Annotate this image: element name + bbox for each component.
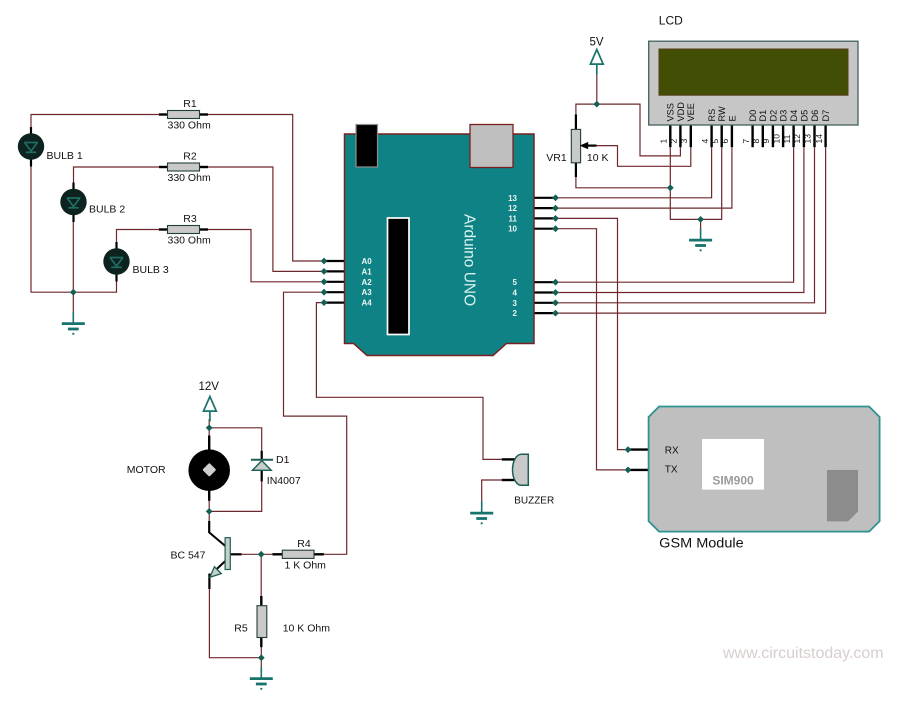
ground under LCD bbox=[689, 229, 712, 252]
wire R2 to A1 bbox=[208, 167, 324, 271]
svg-text:2: 2 bbox=[513, 309, 518, 318]
svg-text:10 K Ohm: 10 K Ohm bbox=[283, 622, 331, 634]
wire pin11 to GSM RX bbox=[556, 218, 628, 449]
svg-text:D4: D4 bbox=[789, 110, 799, 122]
node pin 4 bbox=[552, 289, 559, 296]
svg-text:D2: D2 bbox=[768, 110, 778, 122]
svg-text:330 Ohm: 330 Ohm bbox=[168, 172, 211, 184]
wire 12V to node bbox=[208, 419, 210, 428]
wire gnd node to ground bbox=[72, 292, 74, 313]
svg-text:4: 4 bbox=[700, 139, 710, 144]
svg-text:GSM Module: GSM Module bbox=[659, 536, 744, 552]
resistor R2 bbox=[159, 151, 211, 185]
wire Q1 emitter to gnd node bbox=[209, 588, 261, 658]
svg-text:330 Ohm: 330 Ohm bbox=[168, 120, 211, 132]
wire base node to R5 bbox=[260, 554, 262, 597]
node pin 3 bbox=[552, 299, 559, 306]
svg-text:R4: R4 bbox=[297, 538, 311, 550]
svg-text:A3: A3 bbox=[362, 288, 373, 297]
wire D1 to node bbox=[209, 480, 262, 511]
node emitter-R5 junction bbox=[258, 654, 265, 661]
wire node to Q1 collector bbox=[208, 511, 210, 523]
svg-text:12: 12 bbox=[792, 134, 802, 144]
wire A3 to R4 bbox=[284, 292, 347, 554]
svg-text:RW: RW bbox=[717, 106, 727, 121]
svg-text:www.circuitstoday.com: www.circuitstoday.com bbox=[722, 645, 884, 662]
svg-text:R3: R3 bbox=[183, 213, 197, 225]
svg-text:8: 8 bbox=[751, 139, 761, 144]
svg-text:D3: D3 bbox=[779, 110, 789, 122]
node pin A0 bbox=[321, 258, 328, 265]
svg-text:10: 10 bbox=[508, 225, 517, 234]
svg-text:BULB 2: BULB 2 bbox=[89, 204, 125, 216]
node VSS junction bbox=[667, 184, 674, 191]
resistor R1 bbox=[159, 98, 211, 132]
node bulbs gnd junction bbox=[70, 289, 77, 296]
node pin A3 bbox=[321, 289, 328, 296]
svg-text:BC 547: BC 547 bbox=[170, 550, 205, 562]
svg-text:330 Ohm: 330 Ohm bbox=[168, 235, 211, 247]
diode D1 IN4007 bbox=[251, 451, 301, 487]
wire pin10 to GSM TX bbox=[556, 229, 628, 470]
node 12V junction bbox=[206, 424, 213, 431]
power +5V bbox=[590, 50, 603, 75]
ground under bulbs bbox=[62, 312, 85, 335]
wire bulb2 to gnd node bbox=[72, 218, 74, 292]
wire buzzer to ground bbox=[482, 480, 502, 504]
wire A4 to buzzer bbox=[316, 303, 501, 460]
svg-text:14: 14 bbox=[814, 134, 824, 144]
svg-text:VR1: VR1 bbox=[546, 152, 567, 164]
svg-text:VDD: VDD bbox=[676, 102, 686, 122]
svg-text:11: 11 bbox=[782, 134, 792, 143]
svg-text:BUZZER: BUZZER bbox=[514, 496, 554, 507]
svg-text:D6: D6 bbox=[810, 110, 820, 122]
svg-text:E: E bbox=[727, 115, 737, 121]
wire Q1 base to R4 bbox=[241, 553, 273, 555]
node pin A2 bbox=[321, 278, 328, 285]
wire pin2 to LCD D7 bbox=[556, 147, 826, 313]
svg-text:RX: RX bbox=[665, 446, 679, 457]
wire motor to node bbox=[208, 500, 210, 512]
wire LCD RS to pin13 bbox=[556, 147, 712, 198]
svg-text:1: 1 bbox=[659, 139, 669, 144]
node pin 12 bbox=[552, 205, 559, 212]
svg-text:13: 13 bbox=[803, 134, 813, 144]
transistor Q1 BC547 bbox=[170, 521, 241, 589]
wire LCD VSS and RW to ground net bbox=[670, 147, 721, 219]
svg-text:TX: TX bbox=[665, 464, 678, 475]
LCD module LM016L bbox=[649, 14, 858, 148]
svg-text:A2: A2 bbox=[362, 278, 373, 287]
wire node to motor bbox=[208, 428, 210, 437]
svg-text:RS: RS bbox=[707, 109, 717, 122]
svg-text:BULB 1: BULB 1 bbox=[47, 150, 83, 162]
svg-text:R5: R5 bbox=[234, 622, 248, 634]
ground under buzzer bbox=[470, 502, 493, 525]
svg-text:2: 2 bbox=[669, 139, 679, 144]
wire gnd node to ground bbox=[700, 219, 702, 230]
svg-text:D1: D1 bbox=[758, 110, 768, 122]
node pin 13 bbox=[552, 194, 559, 201]
svg-text:D5: D5 bbox=[799, 110, 809, 122]
node pin 2 bbox=[552, 310, 559, 317]
svg-text:SIM900: SIM900 bbox=[712, 474, 754, 488]
wire bulb1 to R1 bbox=[31, 115, 159, 132]
node 5V junction bbox=[593, 101, 600, 108]
wire LCD E to pin12 bbox=[556, 147, 732, 208]
wire pin5 to LCD D4 bbox=[556, 147, 794, 282]
svg-text:13: 13 bbox=[508, 194, 517, 203]
svg-text:4: 4 bbox=[513, 289, 518, 298]
node pin 5 bbox=[552, 279, 559, 286]
wire bulb3 to gnd node bbox=[73, 277, 116, 292]
svg-text:7: 7 bbox=[741, 139, 751, 144]
svg-text:R1: R1 bbox=[183, 98, 197, 110]
svg-text:3: 3 bbox=[679, 139, 689, 144]
wire R5 to gnd node bbox=[260, 646, 262, 658]
wire VR1 bottom to VSS net bbox=[576, 177, 670, 188]
motor M1 bbox=[127, 436, 230, 501]
svg-text:IN4007: IN4007 bbox=[267, 475, 301, 487]
svg-text:D0: D0 bbox=[748, 110, 758, 122]
svg-text:5: 5 bbox=[513, 278, 518, 287]
wire node to VR1 top bbox=[576, 104, 597, 114]
lamp BULB 2 bbox=[60, 183, 125, 223]
svg-text:BULB 3: BULB 3 bbox=[133, 264, 169, 276]
svg-text:LCD: LCD bbox=[659, 14, 683, 28]
wire R3 to A2 bbox=[208, 230, 324, 282]
svg-text:D1: D1 bbox=[276, 454, 290, 466]
power +12V bbox=[204, 397, 217, 422]
node pin A1 bbox=[321, 268, 328, 275]
svg-text:5: 5 bbox=[710, 139, 720, 144]
wire bulb2 to R2 bbox=[74, 167, 160, 185]
svg-text:3: 3 bbox=[513, 299, 518, 308]
node pin 11 bbox=[552, 215, 559, 222]
svg-text:VSS: VSS bbox=[666, 103, 676, 121]
node pin A4 bbox=[321, 299, 328, 306]
svg-text:VEE: VEE bbox=[686, 103, 696, 121]
svg-text:10 K: 10 K bbox=[587, 152, 609, 164]
node pin 10 bbox=[552, 225, 559, 232]
wire R1 to A0 bbox=[208, 115, 324, 262]
svg-text:MOTOR: MOTOR bbox=[127, 464, 166, 476]
Arduino UNO board U1 bbox=[325, 125, 554, 356]
svg-text:10: 10 bbox=[771, 134, 781, 144]
GSM module SIM900 bbox=[630, 407, 880, 552]
wire bulb1 to gnd node bbox=[31, 163, 73, 292]
wire bulb3 to R3 bbox=[117, 230, 160, 245]
svg-text:6: 6 bbox=[720, 139, 730, 144]
svg-text:A1: A1 bbox=[362, 267, 373, 276]
svg-text:D7: D7 bbox=[821, 110, 831, 122]
node motor-D1 junction bbox=[206, 508, 213, 515]
node base junction bbox=[258, 551, 265, 558]
wire pin3 to LCD D6 bbox=[556, 147, 815, 303]
wire VR1 wiper to LCD VEE bbox=[596, 146, 691, 167]
buzzer BZ1 bbox=[502, 454, 555, 506]
wire 5V to node bbox=[596, 74, 598, 104]
wire node to LCD VDD bbox=[597, 104, 681, 156]
svg-text:Arduino UNO: Arduino UNO bbox=[461, 214, 478, 306]
wire gnd node to ground bbox=[260, 658, 262, 668]
svg-text:12V: 12V bbox=[199, 381, 220, 393]
wire node to D1 bbox=[209, 428, 262, 452]
resistor R4 1K bbox=[273, 538, 327, 571]
svg-text:1 K Ohm: 1 K Ohm bbox=[285, 559, 327, 571]
lamp BULB 3 bbox=[103, 242, 169, 282]
svg-text:9: 9 bbox=[761, 139, 771, 144]
svg-text:A0: A0 bbox=[362, 257, 373, 266]
svg-text:12: 12 bbox=[508, 204, 517, 213]
svg-text:A4: A4 bbox=[362, 299, 373, 308]
potentiometer VR1 10K bbox=[546, 114, 608, 177]
wire pin4 to LCD D5 bbox=[556, 147, 804, 292]
node LCD gnd junction bbox=[697, 216, 704, 223]
node GSM TX pin bbox=[625, 467, 632, 474]
svg-text:11: 11 bbox=[509, 214, 518, 223]
lamp BULB 1 bbox=[18, 127, 83, 167]
resistor R3 bbox=[159, 213, 211, 247]
svg-text:R2: R2 bbox=[183, 151, 197, 163]
resistor R5 10K bbox=[234, 596, 330, 647]
ground under R5 bbox=[250, 667, 273, 690]
node GSM RX pin bbox=[625, 446, 632, 453]
svg-text:5V: 5V bbox=[590, 37, 604, 49]
